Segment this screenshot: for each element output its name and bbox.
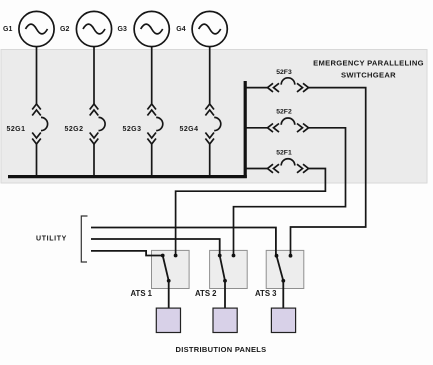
distribution panel 1 bbox=[156, 308, 180, 332]
generator G2 bbox=[76, 11, 111, 46]
svg-text:52F1: 52F1 bbox=[276, 150, 292, 157]
wire: ATS 2 to distribution panel 2 bbox=[224, 281, 226, 309]
wire: 52G1 to main bus bbox=[36, 144, 38, 177]
distribution panel 2 bbox=[213, 308, 237, 332]
ATS 2 enclosure bbox=[210, 250, 248, 288]
breaker 52G4 (drawout) bbox=[205, 104, 220, 144]
vertical feeder bus bbox=[244, 81, 247, 178]
breaker 52G3 (drawout) bbox=[147, 104, 162, 144]
main bus (paralleling bus) bbox=[8, 175, 247, 178]
ATS 3 switch blade and contacts bbox=[275, 254, 293, 283]
wire: 52F2 to ATS 2 emergency input bbox=[234, 128, 346, 256]
wire: ATS 3 to distribution panel 3 bbox=[282, 281, 284, 309]
svg-text:52F3: 52F3 bbox=[276, 69, 292, 76]
wire: G1 to breaker 52G1 bbox=[36, 46, 38, 104]
svg-text:EMERGENCY PARALLELING: EMERGENCY PARALLELING bbox=[313, 59, 424, 68]
ATS 2 switch blade and contacts bbox=[218, 254, 236, 283]
generator G1 bbox=[19, 11, 54, 46]
svg-text:ATS 3: ATS 3 bbox=[255, 289, 277, 298]
svg-text:UTILITY: UTILITY bbox=[36, 236, 67, 243]
label: EMERGENCY PARALLELING SWITCHGEAR bbox=[313, 59, 424, 80]
svg-text:SWITCHGEAR: SWITCHGEAR bbox=[341, 71, 396, 80]
breaker 52G1 (drawout) bbox=[32, 104, 47, 144]
wire: 52G3 to main bus bbox=[151, 144, 153, 177]
svg-text:52F2: 52F2 bbox=[276, 109, 292, 116]
wire: bus to breaker 52F1 bbox=[245, 168, 267, 170]
svg-text:ATS 2: ATS 2 bbox=[195, 289, 217, 298]
svg-text:G3: G3 bbox=[118, 26, 127, 33]
ATS 1 switch blade and contacts bbox=[161, 254, 178, 283]
utility bracket bbox=[81, 216, 87, 262]
breaker 52F2 (drawout) bbox=[268, 118, 309, 132]
breaker 52F1 (drawout) bbox=[268, 159, 309, 173]
breaker 52G2 (drawout) bbox=[90, 104, 105, 144]
wire: utility feed 3 (to ATS 1 normal input) bbox=[91, 251, 163, 256]
svg-text:DISTRIBUTION PANELS: DISTRIBUTION PANELS bbox=[176, 345, 267, 354]
wire: 52F1 to ATS 1 emergency input bbox=[176, 169, 326, 256]
wire: ATS 1 to distribution panel 1 bbox=[168, 281, 170, 309]
wire: bus to breaker 52F3 bbox=[245, 87, 267, 89]
ATS 3 enclosure bbox=[266, 250, 304, 288]
wire: G4 to breaker 52G4 bbox=[209, 46, 211, 104]
wire: G3 to breaker 52G3 bbox=[151, 46, 153, 104]
svg-text:ATS 1: ATS 1 bbox=[131, 289, 153, 298]
svg-text:52G1: 52G1 bbox=[7, 126, 26, 133]
ATS 1 enclosure bbox=[152, 250, 190, 288]
wire: 52F3 to ATS 3 emergency input bbox=[291, 88, 366, 256]
svg-text:G4: G4 bbox=[176, 26, 185, 33]
svg-text:G1: G1 bbox=[3, 26, 12, 33]
wire: bus to breaker 52F2 bbox=[245, 127, 267, 129]
generator G4 bbox=[192, 11, 227, 46]
wire: 52G4 to main bus bbox=[209, 144, 211, 177]
generator G3 bbox=[134, 11, 169, 46]
wire: utility feed 2 (to ATS 2 normal input) bbox=[91, 239, 220, 256]
distribution panel 3 bbox=[271, 308, 295, 332]
wire: utility feed 1 (to ATS 3 normal input) bbox=[91, 228, 276, 256]
svg-text:52G4: 52G4 bbox=[180, 126, 199, 133]
svg-text:52G3: 52G3 bbox=[123, 126, 142, 133]
switchgear enclosure (gray box) bbox=[1, 50, 427, 184]
wire: G2 to breaker 52G2 bbox=[93, 46, 95, 104]
svg-text:G2: G2 bbox=[60, 26, 69, 33]
svg-text:52G2: 52G2 bbox=[65, 126, 84, 133]
breaker 52F3 (drawout) bbox=[268, 78, 309, 92]
wire: 52G2 to main bus bbox=[93, 144, 95, 177]
